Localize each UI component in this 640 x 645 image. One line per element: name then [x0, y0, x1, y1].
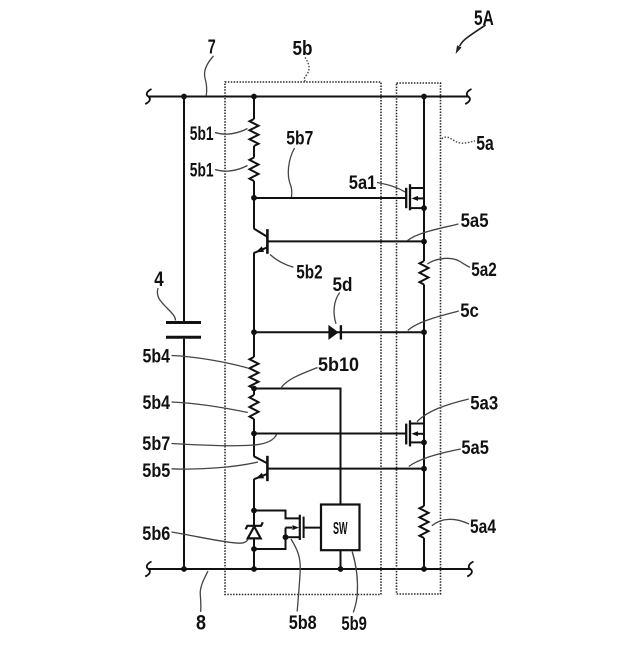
svg-text:5b: 5b	[293, 38, 313, 60]
svg-text:5b8: 5b8	[289, 612, 317, 634]
svg-text:5a5: 5a5	[461, 437, 489, 459]
svg-text:5c: 5c	[460, 300, 479, 322]
svg-text:5a3: 5a3	[470, 392, 498, 414]
svg-text:5a2: 5a2	[471, 259, 497, 281]
svg-text:5b1: 5b1	[190, 160, 214, 182]
svg-text:5a5: 5a5	[461, 210, 489, 232]
svg-text:4: 4	[154, 268, 164, 291]
svg-text:5b4: 5b4	[143, 392, 171, 414]
svg-text:5b9: 5b9	[341, 613, 367, 635]
svg-text:5a4: 5a4	[470, 516, 496, 538]
svg-text:5b1: 5b1	[190, 123, 214, 145]
svg-text:5b7: 5b7	[142, 433, 170, 455]
svg-text:SW: SW	[333, 518, 348, 538]
svg-text:7: 7	[208, 35, 216, 58]
svg-text:5b2: 5b2	[296, 262, 322, 284]
svg-text:5d: 5d	[333, 274, 353, 296]
svg-text:5a1: 5a1	[349, 172, 377, 194]
svg-text:5b7: 5b7	[286, 128, 313, 150]
svg-text:5b5: 5b5	[142, 460, 170, 482]
svg-text:5A: 5A	[474, 7, 494, 30]
svg-text:5b4: 5b4	[143, 345, 171, 367]
svg-text:5b10: 5b10	[318, 354, 359, 376]
svg-text:5a: 5a	[476, 133, 494, 155]
svg-text:8: 8	[196, 612, 206, 635]
svg-text:5b6: 5b6	[142, 523, 170, 545]
